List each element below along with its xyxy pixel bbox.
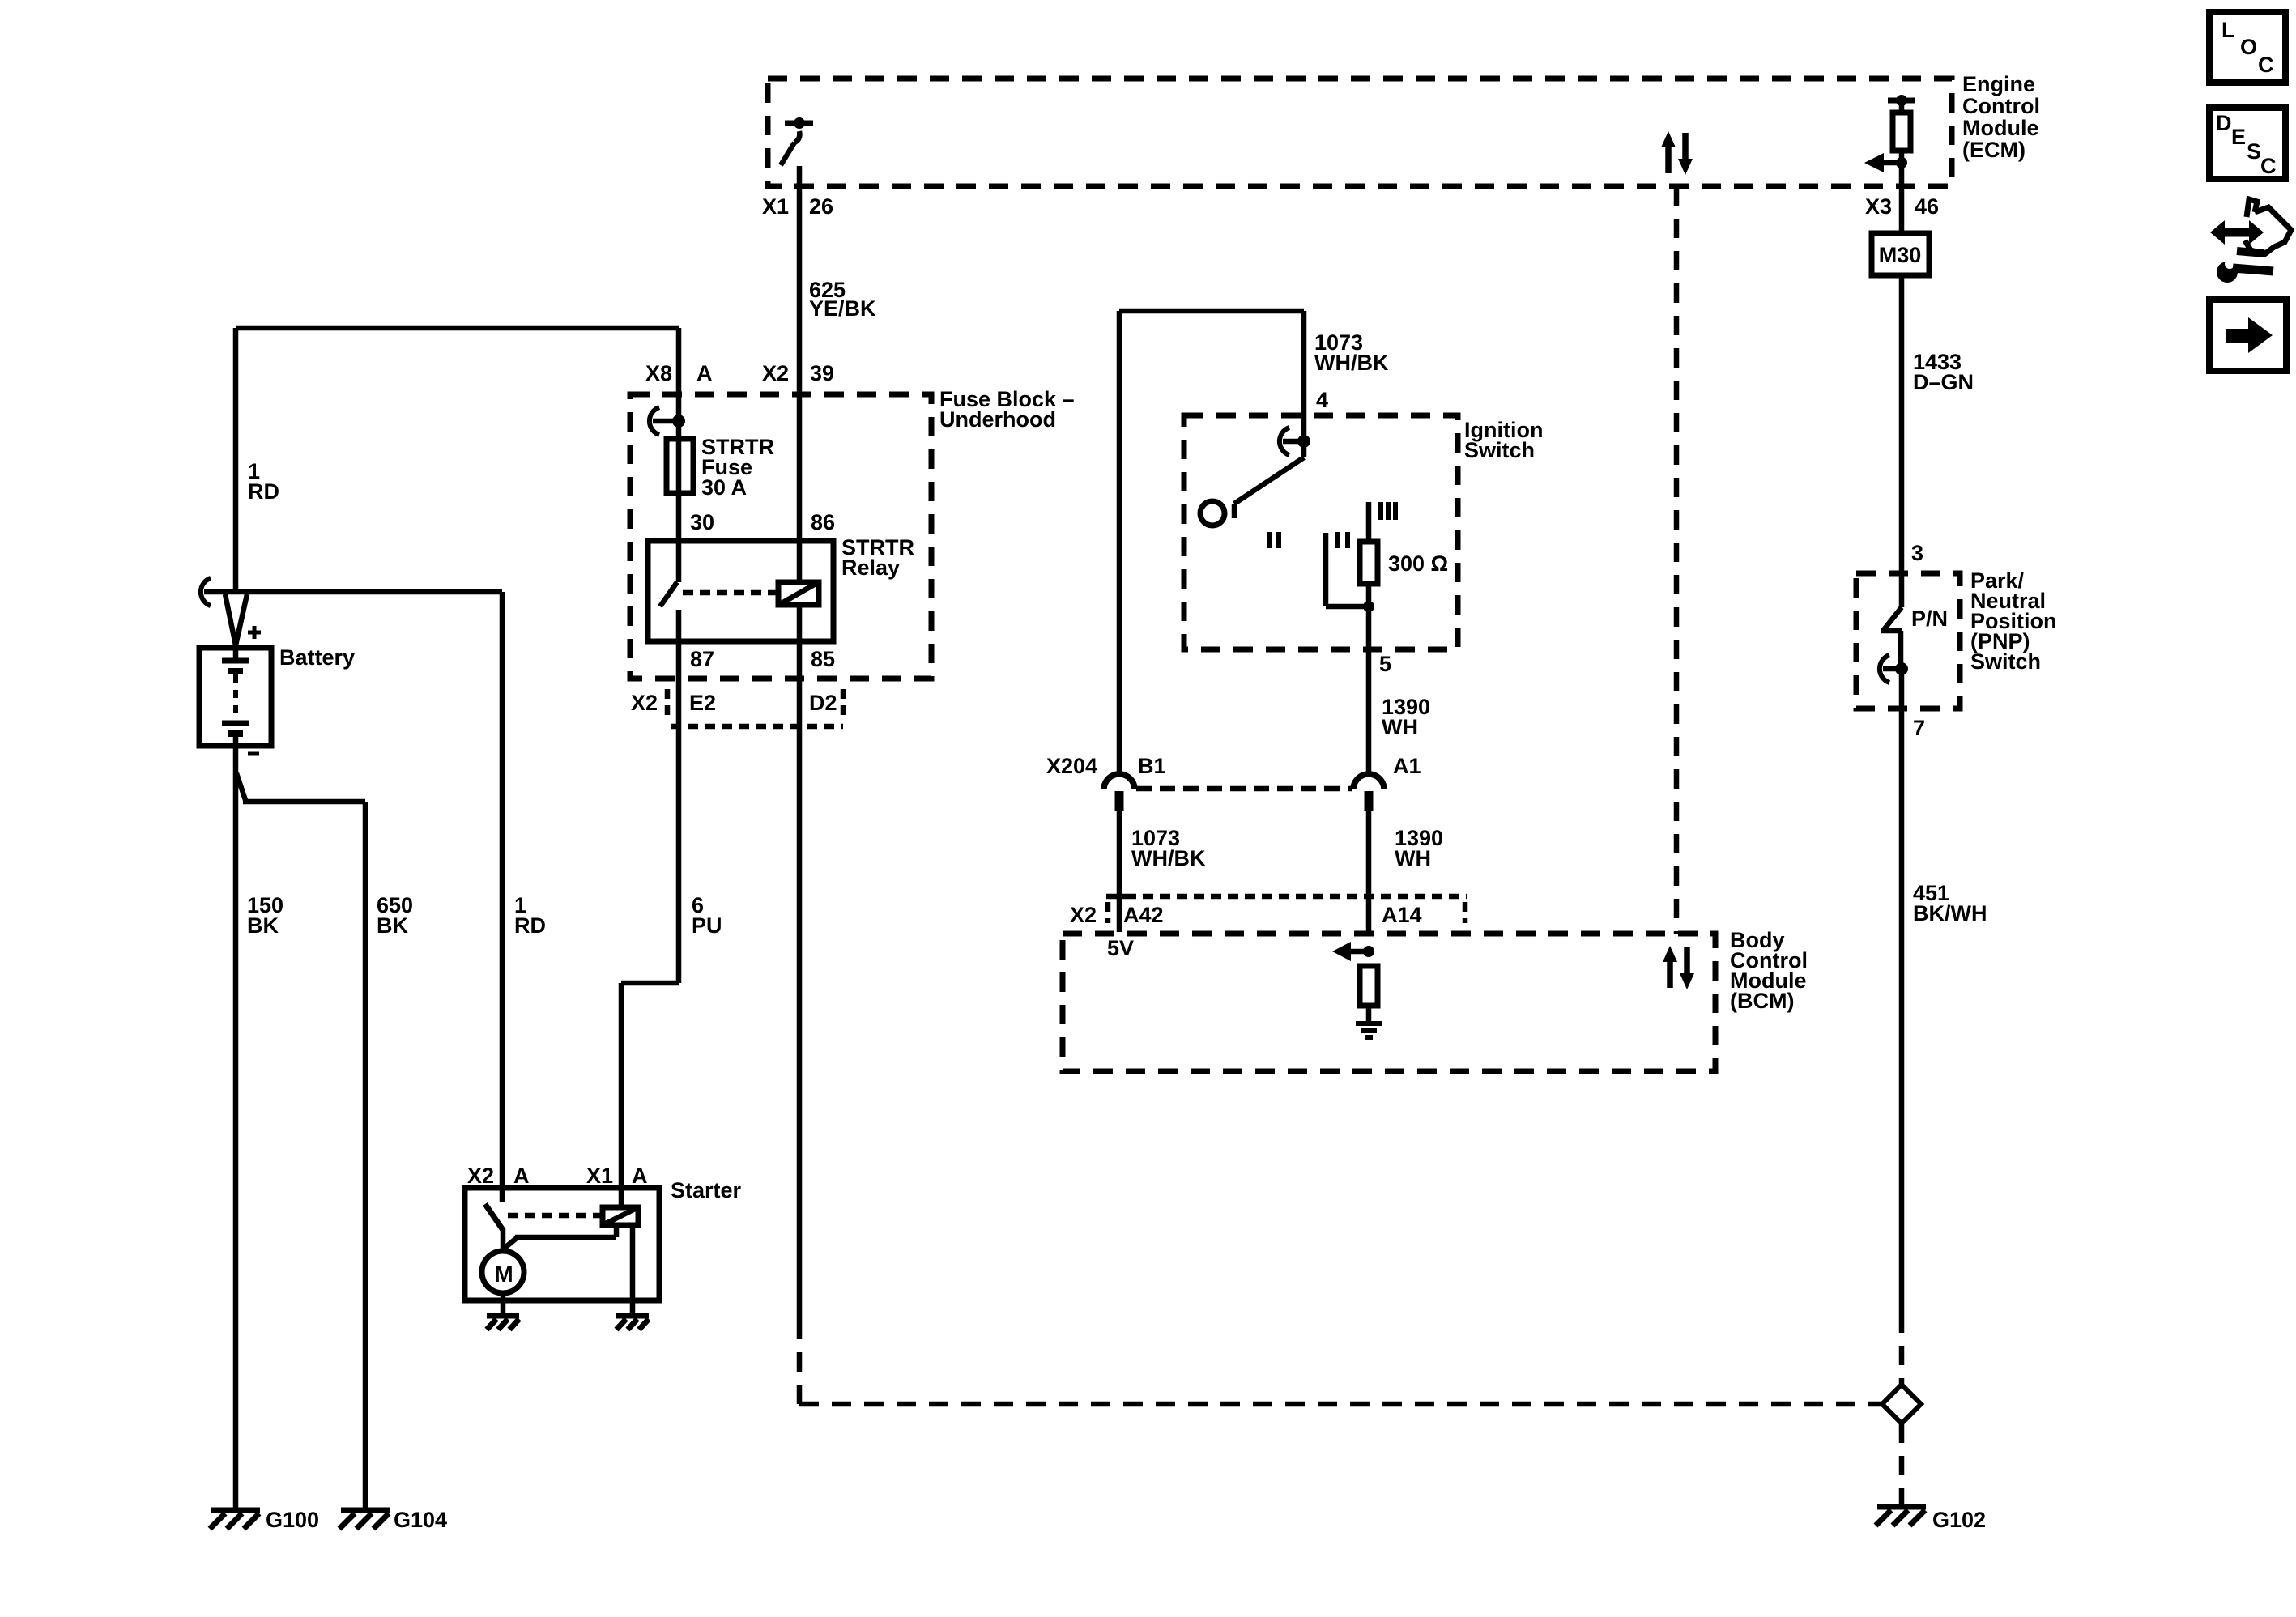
svg-text:Engine: Engine <box>1962 72 2035 96</box>
svg-text:(ECM): (ECM) <box>1962 138 2026 162</box>
svg-text:4: 4 <box>1316 388 1328 412</box>
svg-text:G102: G102 <box>1932 1508 1986 1532</box>
svg-text:300 Ω: 300 Ω <box>1388 551 1448 576</box>
svg-text:A: A <box>632 1164 648 1188</box>
svg-text:46: 46 <box>1915 194 1939 219</box>
svg-text:G100: G100 <box>266 1508 319 1532</box>
svg-text:WH: WH <box>1382 715 1418 739</box>
svg-text:A: A <box>513 1164 530 1188</box>
svg-text:A14: A14 <box>1382 903 1422 927</box>
svg-text:Underhood: Underhood <box>939 407 1056 432</box>
svg-text:Starter: Starter <box>671 1178 742 1202</box>
svg-text:S: S <box>2247 139 2261 164</box>
svg-text:X2: X2 <box>1070 903 1097 927</box>
svg-text:L: L <box>2221 18 2235 42</box>
svg-text:87: 87 <box>690 647 714 671</box>
svg-text:G104: G104 <box>394 1508 447 1532</box>
svg-text:WH: WH <box>1395 846 1431 870</box>
svg-text:D–GN: D–GN <box>1913 370 1974 394</box>
svg-text:Control: Control <box>1962 94 2040 118</box>
svg-text:BK: BK <box>247 913 279 938</box>
svg-text:X8: X8 <box>645 361 672 385</box>
svg-text:Battery: Battery <box>279 645 355 670</box>
svg-text:7: 7 <box>1913 716 1925 740</box>
svg-text:X1: X1 <box>586 1164 613 1188</box>
svg-text:85: 85 <box>811 647 835 671</box>
svg-text:Relay: Relay <box>841 555 900 580</box>
svg-text:RD: RD <box>248 479 279 504</box>
svg-text:X2: X2 <box>467 1164 494 1188</box>
svg-text:X1: X1 <box>762 194 789 219</box>
svg-text:(BCM): (BCM) <box>1730 989 1794 1013</box>
svg-text:YE/BK: YE/BK <box>809 296 876 321</box>
svg-text:WH/BK: WH/BK <box>1131 846 1206 870</box>
svg-text:30 A: 30 A <box>701 475 747 500</box>
svg-text:D2: D2 <box>809 691 837 715</box>
svg-text:Switch: Switch <box>1464 438 1535 462</box>
svg-text:BK: BK <box>377 913 408 938</box>
svg-text:PU: PU <box>692 913 722 938</box>
svg-text:E: E <box>2231 125 2246 149</box>
svg-text:A1: A1 <box>1393 754 1421 778</box>
svg-text:D: D <box>2216 111 2232 135</box>
svg-text:M30: M30 <box>1879 243 1922 267</box>
svg-text:B1: B1 <box>1138 754 1166 778</box>
svg-text:5: 5 <box>1379 652 1391 676</box>
svg-text:X2: X2 <box>631 691 658 715</box>
svg-text:O: O <box>2240 35 2257 59</box>
svg-text:WH/BK: WH/BK <box>1314 351 1389 375</box>
svg-text:39: 39 <box>810 361 834 385</box>
svg-text:5V: 5V <box>1107 936 1134 960</box>
svg-text:3: 3 <box>1911 541 1923 565</box>
svg-text:86: 86 <box>811 510 835 534</box>
svg-text:X2: X2 <box>762 361 789 385</box>
svg-text:E2: E2 <box>689 691 716 715</box>
svg-text:C: C <box>2258 53 2274 77</box>
svg-text:Switch: Switch <box>1970 649 2041 674</box>
svg-text:Module: Module <box>1962 116 2039 140</box>
svg-text:A42: A42 <box>1123 903 1164 927</box>
svg-text:X3: X3 <box>1865 194 1892 219</box>
svg-text:26: 26 <box>809 194 833 219</box>
svg-text:P/N: P/N <box>1911 606 1948 631</box>
svg-text:A: A <box>696 361 713 385</box>
svg-text:M: M <box>494 1262 513 1287</box>
svg-text:30: 30 <box>690 510 714 534</box>
svg-text:RD: RD <box>514 913 546 938</box>
svg-text:BK/WH: BK/WH <box>1913 901 1987 926</box>
svg-text:X204: X204 <box>1046 754 1097 778</box>
svg-text:C: C <box>2260 154 2277 178</box>
